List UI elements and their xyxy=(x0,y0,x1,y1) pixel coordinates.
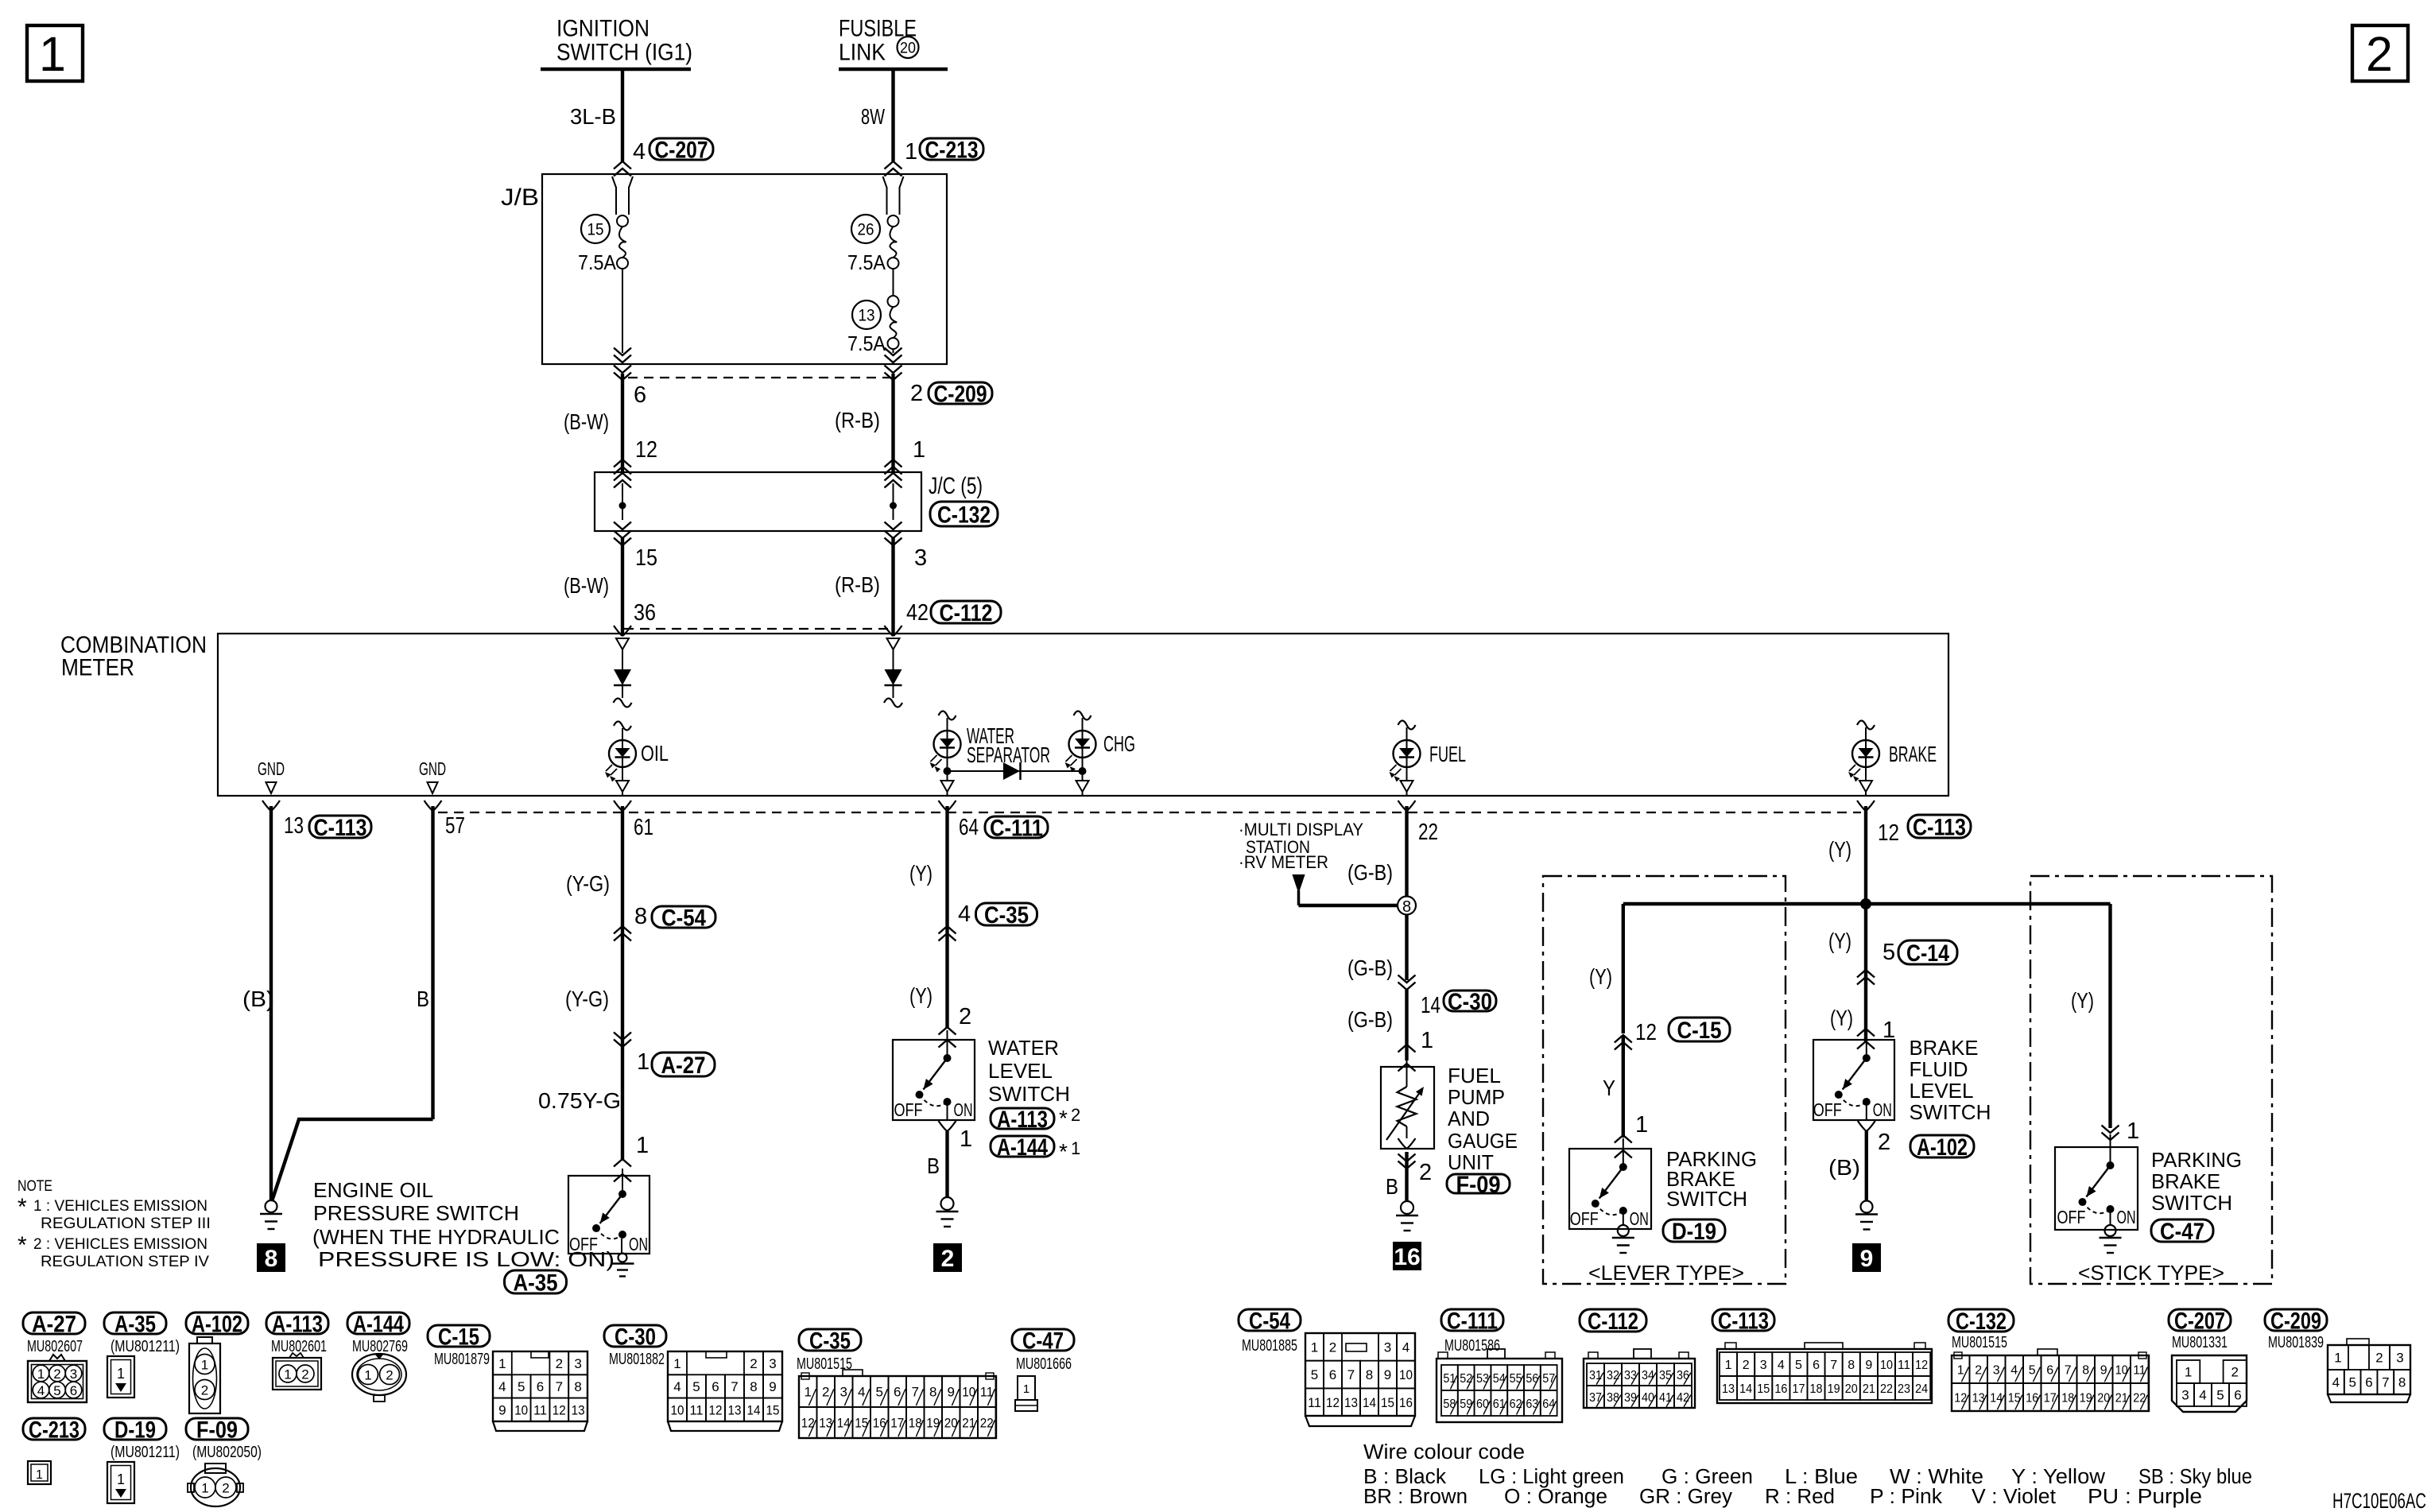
fuse clip left xyxy=(612,176,616,188)
svg-text:C-47: C-47 xyxy=(1022,1328,1064,1354)
wire G-B fuel mid xyxy=(1405,915,1408,981)
chevrons C-14 xyxy=(1857,970,1875,978)
svg-text:8: 8 xyxy=(929,1385,936,1400)
connector D-19 pinout xyxy=(107,1462,134,1503)
svg-text:F-09: F-09 xyxy=(196,1417,238,1443)
svg-text:PU : Purple: PU : Purple xyxy=(2088,1486,2202,1508)
svg-text:9: 9 xyxy=(1865,1359,1872,1372)
svg-text:35: 35 xyxy=(1659,1369,1672,1382)
svg-text:6: 6 xyxy=(70,1383,77,1398)
svg-text:B: B xyxy=(1386,1174,1398,1199)
svg-text:21: 21 xyxy=(1863,1382,1875,1396)
svg-text:4: 4 xyxy=(858,1385,865,1400)
svg-text:7: 7 xyxy=(2382,1375,2389,1390)
svg-text:GR : Grey: GR : Grey xyxy=(1639,1486,1732,1508)
svg-text:9: 9 xyxy=(1860,1246,1874,1272)
svg-text:4: 4 xyxy=(2199,1388,2206,1403)
svg-text:51: 51 xyxy=(1443,1372,1456,1386)
connector C-112 label bottom xyxy=(1580,1309,1646,1332)
connector label C-47 switch xyxy=(2151,1219,2213,1242)
svg-text:2 : VEHICLES EMISSION: 2 : VEHICLES EMISSION xyxy=(33,1236,207,1253)
water level ON to box edge xyxy=(947,1102,948,1120)
svg-text:7.5A: 7.5A xyxy=(578,250,617,274)
J/C right exit xyxy=(885,522,902,530)
svg-text:MU801515: MU801515 xyxy=(1952,1334,2007,1351)
combination meter box xyxy=(218,634,1948,796)
svg-text:15: 15 xyxy=(587,221,604,239)
svg-text:2: 2 xyxy=(959,1004,971,1029)
svg-text:(Y): (Y) xyxy=(1589,964,1612,989)
svg-text:C-14: C-14 xyxy=(1906,940,1949,967)
svg-text:1: 1 xyxy=(1957,1363,1964,1377)
svg-text:R : Red: R : Red xyxy=(1765,1486,1835,1508)
connector C-132 label bottom xyxy=(1948,1309,2014,1332)
svg-text:2: 2 xyxy=(1329,1339,1336,1355)
svg-text:MU801586: MU801586 xyxy=(1444,1337,1500,1355)
brake squiggle xyxy=(1857,721,1875,730)
svg-text:5: 5 xyxy=(2348,1375,2356,1390)
connector A-144 pinout xyxy=(352,1354,406,1395)
svg-text:1: 1 xyxy=(2334,1351,2341,1366)
fuse number 15 xyxy=(581,215,610,243)
fuel lamp to meter edge xyxy=(1406,767,1408,781)
connector chevrons C-207 xyxy=(614,161,631,169)
svg-text:B: B xyxy=(927,1153,940,1178)
connector C-207 pinout xyxy=(2172,1355,2247,1412)
svg-text:14: 14 xyxy=(1363,1395,1376,1410)
svg-text:(Y): (Y) xyxy=(909,861,933,886)
lever branch wire lower xyxy=(1622,1035,1625,1138)
svg-text:(B): (B) xyxy=(1828,1155,1860,1180)
svg-text:1: 1 xyxy=(913,437,925,463)
svg-text:1: 1 xyxy=(284,1367,291,1382)
GND 1 triangle xyxy=(266,782,277,793)
parking brake switch stick xyxy=(2055,1147,2138,1230)
fuse element 26 xyxy=(888,215,899,227)
svg-text:A-27: A-27 xyxy=(32,1311,76,1337)
connector D-19 label xyxy=(104,1418,166,1440)
svg-text:C-209: C-209 xyxy=(2270,1308,2321,1334)
wire into fuel gauge xyxy=(1406,1058,1408,1087)
svg-text:*: * xyxy=(17,1194,27,1220)
svg-text:9: 9 xyxy=(1384,1367,1391,1382)
svg-text:CHG: CHG xyxy=(1103,731,1135,756)
svg-text:1: 1 xyxy=(1071,1138,1080,1158)
svg-text:1: 1 xyxy=(1635,1112,1648,1138)
connector label C-209 xyxy=(929,382,992,404)
svg-text:6: 6 xyxy=(634,382,646,408)
water level switch xyxy=(893,1040,975,1120)
svg-text:MU801879: MU801879 xyxy=(434,1351,490,1368)
fuel pump and gauge unit box xyxy=(1381,1067,1434,1149)
svg-text:6: 6 xyxy=(1329,1367,1336,1382)
svg-text:MU802607: MU802607 xyxy=(27,1338,83,1355)
svg-text:C-207: C-207 xyxy=(655,137,708,163)
connector A-113 pinout xyxy=(273,1358,321,1390)
svg-text:16: 16 xyxy=(1774,1382,1787,1396)
svg-text:(Y-G): (Y-G) xyxy=(566,871,610,896)
meter entry fork left xyxy=(614,626,622,636)
svg-text:(Y-G): (Y-G) xyxy=(565,987,609,1011)
svg-text:60: 60 xyxy=(1476,1398,1489,1411)
svg-text:C-111: C-111 xyxy=(1447,1308,1498,1334)
svg-text:*: * xyxy=(1059,1139,1068,1164)
svg-text:13: 13 xyxy=(572,1402,585,1417)
svg-text:J/C (5): J/C (5) xyxy=(929,473,983,499)
wire inside J/B left xyxy=(622,269,623,353)
svg-text:33: 33 xyxy=(1624,1369,1637,1382)
wire inside J/B right xyxy=(893,349,894,353)
svg-text:2: 2 xyxy=(53,1367,60,1382)
connector label C-14 xyxy=(1898,940,1957,964)
svg-text:LEVEL: LEVEL xyxy=(988,1059,1053,1083)
svg-text:13: 13 xyxy=(1722,1382,1735,1396)
svg-text:7.5A: 7.5A xyxy=(847,250,886,274)
svg-text:UNIT: UNIT xyxy=(1448,1150,1494,1174)
svg-text:22: 22 xyxy=(1880,1382,1893,1396)
svg-text:C-30: C-30 xyxy=(1448,989,1492,1015)
svg-text:59: 59 xyxy=(1460,1398,1472,1411)
svg-text:C-35: C-35 xyxy=(984,902,1029,929)
svg-text:42: 42 xyxy=(1677,1391,1689,1405)
svg-text:GND: GND xyxy=(419,758,446,779)
svg-text:3: 3 xyxy=(70,1367,77,1382)
svg-text:(Y): (Y) xyxy=(909,983,933,1008)
svg-text:<LEVER TYPE>: <LEVER TYPE> xyxy=(1588,1261,1744,1285)
fuel squiggle xyxy=(1398,721,1416,730)
connector C-47 label xyxy=(1012,1329,1074,1351)
svg-text:(Y): (Y) xyxy=(1828,929,1851,953)
svg-text:64: 64 xyxy=(1542,1398,1555,1411)
svg-text:62: 62 xyxy=(1510,1398,1522,1411)
junction dot brake xyxy=(1860,898,1871,909)
svg-text:<STICK TYPE>: <STICK TYPE> xyxy=(2078,1261,2224,1285)
GND 2 triangle xyxy=(428,782,438,793)
CHG triangle out xyxy=(1076,781,1089,792)
svg-text:5: 5 xyxy=(1311,1367,1318,1382)
connector A-113 label xyxy=(266,1312,328,1334)
svg-text:SWITCH: SWITCH xyxy=(1666,1187,1747,1211)
svg-text:8: 8 xyxy=(265,1246,278,1272)
connector label C-111 top xyxy=(985,816,1048,838)
dashed connector line below meter xyxy=(438,812,1861,813)
svg-text:1: 1 xyxy=(1421,1028,1433,1053)
ground symbol left xyxy=(266,1200,277,1212)
connector chevrons C-213 xyxy=(885,161,902,169)
svg-text:12: 12 xyxy=(1915,1359,1928,1372)
svg-text:3: 3 xyxy=(574,1356,581,1371)
svg-text:1: 1 xyxy=(1725,1359,1732,1372)
svg-text:2: 2 xyxy=(1975,1363,1982,1377)
svg-text:6: 6 xyxy=(1813,1359,1820,1372)
oil lamp feed squiggle xyxy=(614,722,631,731)
svg-text:4: 4 xyxy=(498,1379,506,1394)
svg-text:LEVEL: LEVEL xyxy=(1910,1079,1974,1103)
svg-text:20: 20 xyxy=(900,41,916,57)
svg-text:12: 12 xyxy=(553,1402,566,1417)
svg-text:15: 15 xyxy=(1757,1382,1770,1396)
svg-text:13: 13 xyxy=(284,813,304,839)
connector C-47 pinout xyxy=(1018,1376,1035,1400)
svg-text:LINK: LINK xyxy=(839,40,886,66)
svg-text:3: 3 xyxy=(2396,1351,2403,1366)
svg-text:41: 41 xyxy=(1659,1391,1672,1405)
connector label A-144 xyxy=(991,1136,1054,1157)
svg-text:1: 1 xyxy=(2127,1118,2139,1144)
connector C-213 pinout xyxy=(28,1461,51,1484)
svg-text:54: 54 xyxy=(1493,1372,1506,1386)
connector C-113 pinout xyxy=(1717,1349,1932,1403)
svg-text:2: 2 xyxy=(222,1481,229,1496)
svg-text:6: 6 xyxy=(2046,1363,2053,1377)
svg-text:C-209: C-209 xyxy=(934,381,987,407)
fusible link bus bar xyxy=(839,68,948,72)
svg-text:B : Black: B : Black xyxy=(1363,1466,1446,1488)
svg-text:5: 5 xyxy=(518,1379,525,1394)
stick ON to ground xyxy=(2110,1209,2111,1225)
wire R-B pin2 to J/C xyxy=(885,373,902,381)
svg-text:REGULATION STEP IV: REGULATION STEP IV xyxy=(41,1254,209,1270)
svg-text:A-27: A-27 xyxy=(661,1053,706,1079)
connector label C-132 xyxy=(930,502,998,526)
meter exit fork x=1769.5 xyxy=(1398,801,1407,811)
connector C-54 pinout xyxy=(1305,1333,1415,1416)
svg-text:8: 8 xyxy=(2398,1375,2406,1390)
svg-text:1: 1 xyxy=(498,1356,506,1371)
brake fluid ON to box edge xyxy=(1866,1102,1867,1120)
connector C-132 pinout xyxy=(1952,1355,2149,1411)
wire Y-G oil column xyxy=(621,806,624,1161)
connector A-35 pinout xyxy=(107,1356,134,1398)
parking brake switch lever xyxy=(1569,1149,1651,1229)
svg-text:0.75Y-G: 0.75Y-G xyxy=(538,1088,621,1113)
ignition switch bus bar xyxy=(541,68,691,72)
svg-text:(B): (B) xyxy=(242,987,274,1011)
svg-text:PUMP: PUMP xyxy=(1448,1085,1505,1109)
svg-text:6: 6 xyxy=(2234,1388,2241,1403)
svg-text:(WHEN THE HYDRAULIC: (WHEN THE HYDRAULIC xyxy=(312,1225,560,1249)
svg-text:1: 1 xyxy=(2185,1365,2192,1380)
svg-text:14: 14 xyxy=(747,1402,761,1417)
connector A-27 pinout xyxy=(28,1361,87,1402)
svg-text:F-09: F-09 xyxy=(1456,1172,1501,1198)
svg-text:8: 8 xyxy=(2082,1363,2089,1377)
svg-text:C-30: C-30 xyxy=(615,1324,656,1350)
svg-text:4: 4 xyxy=(958,901,971,927)
connector label A-35 xyxy=(505,1270,567,1293)
svg-text:7: 7 xyxy=(556,1379,563,1394)
wire Y water level column xyxy=(945,806,948,1029)
svg-text:8: 8 xyxy=(1366,1367,1373,1382)
connector C-35 pinout xyxy=(799,1376,996,1438)
svg-text:OFF: OFF xyxy=(2057,1207,2086,1227)
meter exit fork x=341 xyxy=(262,801,271,811)
svg-text:ON: ON xyxy=(954,1099,973,1120)
meter exit fork x=1191.5 xyxy=(939,801,948,811)
connector label C-112 top xyxy=(931,601,1001,623)
svg-text:O : Orange: O : Orange xyxy=(1504,1486,1607,1508)
svg-text:10: 10 xyxy=(1880,1359,1893,1372)
svg-text:4: 4 xyxy=(1402,1339,1409,1355)
chevrons C-54 xyxy=(614,926,631,934)
svg-text:18: 18 xyxy=(1810,1382,1823,1396)
svg-text:MU801885: MU801885 xyxy=(1242,1337,1297,1355)
svg-text:42: 42 xyxy=(906,600,929,626)
chevrons C-30 xyxy=(1398,983,1416,991)
svg-text:A-35: A-35 xyxy=(514,1270,558,1296)
junction circle 8 xyxy=(1398,897,1416,915)
svg-text:8: 8 xyxy=(1402,898,1411,916)
svg-text:MU801331: MU801331 xyxy=(2172,1334,2228,1351)
svg-text:P : Pink: P : Pink xyxy=(1870,1486,1942,1508)
svg-text:*: * xyxy=(1059,1106,1068,1130)
svg-text:OFF: OFF xyxy=(1813,1099,1842,1120)
ground symbol oil switch xyxy=(618,1254,627,1262)
svg-text:(R-B): (R-B) xyxy=(835,572,880,597)
connector C-207 label bottom xyxy=(2169,1309,2231,1331)
svg-text:C-213: C-213 xyxy=(29,1417,79,1443)
svg-text:A-102: A-102 xyxy=(1917,1134,1968,1161)
svg-text:4: 4 xyxy=(633,139,646,165)
meter exit fork x=544.5 xyxy=(425,801,433,811)
svg-text:SWITCH (IG1): SWITCH (IG1) xyxy=(556,40,692,66)
svg-text:ENGINE OIL: ENGINE OIL xyxy=(313,1178,433,1202)
svg-text:H7C10E06AC: H7C10E06AC xyxy=(2332,1489,2426,1512)
svg-text:BRAKE: BRAKE xyxy=(1910,1036,1979,1060)
svg-text:11: 11 xyxy=(533,1402,547,1417)
connector label C-113 brake xyxy=(1908,815,1971,838)
ground ref box 9 xyxy=(1852,1243,1881,1272)
svg-text:C-207: C-207 xyxy=(2174,1308,2225,1334)
connector label C-213 xyxy=(920,138,983,160)
svg-text:17: 17 xyxy=(1792,1382,1805,1396)
fuse element 13 xyxy=(888,296,899,307)
svg-text:C-54: C-54 xyxy=(661,905,706,931)
svg-text:2: 2 xyxy=(910,381,923,406)
svg-text:1: 1 xyxy=(201,1481,208,1496)
water separator triangle out xyxy=(941,781,954,792)
svg-text:12: 12 xyxy=(1878,820,1899,846)
svg-text:A-144: A-144 xyxy=(353,1311,404,1337)
svg-text:G : Green: G : Green xyxy=(1661,1466,1753,1488)
svg-text:14: 14 xyxy=(1739,1382,1752,1396)
svg-text:(MU801211): (MU801211) xyxy=(111,1444,180,1461)
fuse number 26 xyxy=(851,215,880,243)
stick branch wire xyxy=(2108,904,2111,1128)
wire B jog to ground xyxy=(272,1119,433,1201)
connector label C-30 top xyxy=(1444,991,1496,1011)
svg-text:1: 1 xyxy=(1311,1339,1318,1355)
svg-text:OFF: OFF xyxy=(1570,1208,1599,1229)
warning lamp WATER SEPARATOR xyxy=(934,731,961,758)
connector C-35 label xyxy=(799,1329,861,1351)
oil switch ON to ground xyxy=(621,1239,622,1254)
svg-text:ON: ON xyxy=(2117,1207,2136,1227)
svg-text:1: 1 xyxy=(36,1468,43,1482)
svg-text:C-111: C-111 xyxy=(990,815,1043,841)
wire 3L-B from ignition switch xyxy=(621,69,624,161)
wire between fuses xyxy=(893,269,894,296)
chevrons J/C left entry xyxy=(614,459,631,467)
svg-text:W : White: W : White xyxy=(1890,1466,1983,1488)
svg-text:2: 2 xyxy=(750,1356,757,1371)
fuse clip right xyxy=(883,176,887,188)
chevrons stick entry xyxy=(2102,1133,2119,1141)
svg-text:A-144: A-144 xyxy=(997,1134,1048,1161)
svg-text:3L-B: 3L-B xyxy=(570,104,616,129)
connector C-15 pinout xyxy=(493,1351,587,1421)
wire between lamps xyxy=(948,770,1083,772)
svg-text:Wire colour code: Wire colour code xyxy=(1363,1441,1525,1464)
svg-text:A-113: A-113 xyxy=(272,1311,323,1337)
svg-text:(B-W): (B-W) xyxy=(564,573,609,598)
svg-text:10: 10 xyxy=(671,1402,684,1417)
svg-text:11: 11 xyxy=(1308,1395,1321,1410)
svg-text:1: 1 xyxy=(117,1471,125,1487)
warning lamp FUEL xyxy=(1394,740,1421,767)
svg-text:19: 19 xyxy=(1828,1382,1840,1396)
svg-text:OIL: OIL xyxy=(641,741,669,766)
connector label C-35 top xyxy=(976,903,1037,925)
svg-text:56: 56 xyxy=(1526,1372,1538,1386)
svg-text:MU801666: MU801666 xyxy=(1016,1355,1072,1373)
svg-text:7: 7 xyxy=(912,1385,919,1400)
ground symbol fuel pump xyxy=(1401,1201,1413,1214)
svg-text:(B-W): (B-W) xyxy=(564,409,609,434)
svg-text:AND: AND xyxy=(1448,1107,1490,1130)
wire Y brake column xyxy=(1864,806,1867,1041)
svg-text:4: 4 xyxy=(2010,1363,2018,1377)
svg-text:2: 2 xyxy=(1878,1130,1890,1155)
svg-text:15: 15 xyxy=(1381,1395,1394,1410)
connector F-09 pinout xyxy=(205,1464,226,1473)
svg-text:3: 3 xyxy=(1760,1359,1767,1372)
connector label F-09 xyxy=(1447,1174,1510,1193)
svg-text:B: B xyxy=(417,987,429,1011)
svg-text:9: 9 xyxy=(769,1379,776,1394)
connector C-30 pinout xyxy=(668,1351,782,1421)
water level exit fork xyxy=(939,1121,948,1131)
svg-text:26: 26 xyxy=(858,221,874,239)
svg-text:BR : Brown: BR : Brown xyxy=(1363,1486,1468,1508)
connector A-144 label xyxy=(347,1312,409,1334)
chevrons J/B left exit xyxy=(614,355,631,363)
svg-text:53: 53 xyxy=(1476,1372,1489,1386)
ground symbol stick switch xyxy=(2105,1225,2116,1236)
ground ref box 16 xyxy=(1393,1242,1421,1270)
svg-text:PRESSURE IS LOW: ON): PRESSURE IS LOW: ON) xyxy=(318,1247,615,1271)
svg-text:3: 3 xyxy=(1384,1339,1391,1355)
meter exit fork x=2347 xyxy=(1857,801,1866,811)
wire B to ground water xyxy=(945,1131,948,1197)
svg-text:A-102: A-102 xyxy=(192,1311,242,1337)
page number box 1 xyxy=(27,25,83,81)
J/C left exit xyxy=(614,522,631,530)
connector label A-102 xyxy=(1910,1135,1974,1157)
CHG to junction xyxy=(1082,758,1084,781)
svg-text:SEPARATOR: SEPARATOR xyxy=(967,742,1050,767)
svg-text:C-15: C-15 xyxy=(1677,1018,1722,1044)
svg-text:2: 2 xyxy=(2375,1351,2383,1366)
svg-text:C-113: C-113 xyxy=(314,815,367,841)
svg-text:8: 8 xyxy=(634,904,647,929)
svg-text:39: 39 xyxy=(1624,1391,1637,1405)
svg-text:9: 9 xyxy=(948,1385,955,1400)
svg-text:C-35: C-35 xyxy=(809,1328,851,1354)
svg-text:MU802601: MU802601 xyxy=(271,1338,327,1355)
svg-text:FLUID: FLUID xyxy=(1910,1057,1968,1081)
lever type dash-dot box xyxy=(1543,876,1786,1284)
